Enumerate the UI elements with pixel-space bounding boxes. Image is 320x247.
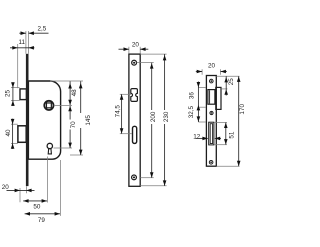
svg-text:2,5: 2,5 [38, 25, 47, 32]
svg-text:70: 70 [70, 121, 77, 129]
svg-text:51: 51 [229, 131, 236, 139]
svg-text:145: 145 [85, 115, 92, 126]
svg-text:20: 20 [2, 184, 10, 191]
svg-text:25: 25 [5, 90, 12, 98]
svg-text:40: 40 [5, 129, 12, 137]
svg-text:74,5: 74,5 [114, 105, 121, 118]
svg-text:170: 170 [239, 104, 246, 115]
svg-text:50: 50 [33, 204, 41, 211]
svg-text:230: 230 [163, 111, 170, 122]
svg-text:20: 20 [132, 42, 140, 49]
svg-text:11: 11 [19, 39, 26, 46]
svg-text:79: 79 [38, 217, 46, 224]
svg-text:48: 48 [71, 89, 78, 97]
svg-text:200: 200 [150, 111, 157, 122]
svg-text:25: 25 [228, 78, 235, 86]
svg-text:20: 20 [208, 62, 216, 69]
svg-text:32,5: 32,5 [188, 105, 195, 118]
svg-text:12: 12 [193, 133, 201, 140]
svg-text:36: 36 [189, 92, 196, 100]
